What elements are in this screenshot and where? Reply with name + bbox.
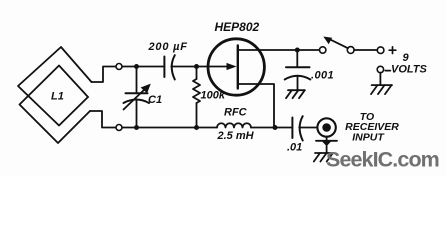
wire drain [238,49,319,51]
capacitor C1 curved plate [124,100,150,104]
inductor RFC 2.5mH humps [217,123,251,127]
svg-text:100k: 100k [201,90,226,102]
jack J1 outer circle [317,118,335,136]
capacitor 200uF curved plate [172,55,175,79]
svg-text:.001: .001 [311,69,334,81]
capacitor C1 flat plate [126,92,148,94]
node junction drain / .001 [295,48,300,53]
capacitor .001 curved plate [285,76,311,80]
capacitor C1 variable arrow [124,89,146,110]
switch S1 contact [320,47,326,53]
node junction source / .01 [273,125,278,130]
transistor U1 HEP802 circle [208,39,264,95]
wire minus terminal to ground [379,73,381,85]
node junction bottom C1 [134,125,139,130]
jack J1 ground lead [326,146,328,153]
transistor gate arrowhead [227,63,237,70]
svg-text:SeekIC.com: SeekIC.com [326,147,439,171]
ground under battery minus [371,85,392,94]
svg-text:INPUT: INPUT [352,132,385,144]
svg-text:9: 9 [403,52,410,64]
label plus [389,47,396,54]
battery plus terminal [377,47,384,54]
capacitor .001 lead from drain [296,50,298,67]
wire bottom rail left [122,127,217,129]
svg-text:C1: C1 [148,94,162,106]
wire source [238,84,274,128]
wire upper antenna lead [92,67,116,83]
svg-text:VOLTS: VOLTS [391,64,428,76]
terminal lower antenna [116,125,122,131]
capacitor .001 flat plate [286,66,310,68]
capacitor C1 arrowhead [141,84,151,94]
loop antenna L1 outer turn [18,47,92,126]
wire gate [171,66,228,68]
capacitor .001 lead to ground [297,76,299,90]
wire switch to battery [354,49,377,51]
capacitor C1 wire to bottom rail [136,101,138,128]
svg-text:L1: L1 [51,91,64,103]
jack J1 shell lead [326,137,328,141]
wire top rail [122,66,163,68]
svg-text:RFC: RFC [224,106,248,118]
jack J1 shell arrowhead [322,141,332,146]
loop antenna L1 inner turn [20,66,91,144]
resistor 100k zigzag [193,79,200,103]
terminal upper antenna [116,64,122,70]
wire bottom rail right [251,127,292,129]
wire to jack [299,127,317,129]
resistor 100k lead top [196,67,198,80]
ground under jack [314,153,333,162]
jack J1 shell bar [316,140,337,142]
svg-text:2.5 mH: 2.5 mH [217,130,255,142]
node junction top C1 [134,64,139,69]
wire lower antenna lead [90,111,116,128]
resistor 100k lead bottom [196,103,198,128]
battery minus terminal [377,66,383,72]
ground under .001 [286,90,305,98]
battery minus sign [385,70,390,72]
svg-text:.01: .01 [287,142,302,154]
label TO RECEIVER INPUT [345,111,399,144]
capacitor .01 flat plate [291,118,293,139]
switch S1 pivot [347,47,354,54]
jack J1 center pin [322,123,331,132]
switch S1 arm [329,39,348,49]
svg-text:HEP802: HEP802 [215,20,260,34]
node junction bottom 100k [194,125,199,130]
capacitor 200uF flat plate [163,57,165,78]
node junction gate / 100k [194,64,199,69]
capacitor C1 wire from top rail [136,67,138,94]
switch S1 arm arrowhead [323,37,332,45]
svg-text:200 µF: 200 µF [148,41,188,53]
capacitor .01 curved plate [300,116,303,140]
transistor channel bar [237,46,239,89]
